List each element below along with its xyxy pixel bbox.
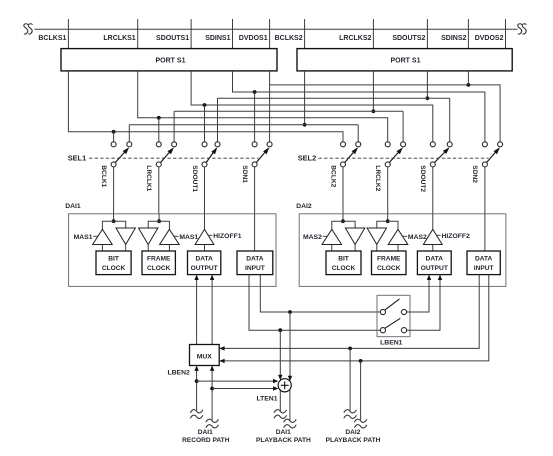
svg-text:OUTPUT: OUTPUT xyxy=(421,265,448,272)
svg-text:BIT: BIT xyxy=(338,256,349,263)
svg-text:HIZOFF2: HIZOFF2 xyxy=(442,233,471,240)
svg-text:PORT S1: PORT S1 xyxy=(156,57,186,64)
svg-text:SDINS2: SDINS2 xyxy=(441,35,466,42)
svg-text:PORT S1: PORT S1 xyxy=(391,57,421,64)
svg-text:BIT: BIT xyxy=(108,256,119,263)
svg-text:INPUT: INPUT xyxy=(474,265,494,272)
svg-text:BCLKS2: BCLKS2 xyxy=(275,35,303,42)
svg-text:PLAYBACK PATH: PLAYBACK PATH xyxy=(326,437,381,444)
svg-text:LRCLKS2: LRCLKS2 xyxy=(339,35,371,42)
svg-text:DAI1: DAI1 xyxy=(276,429,291,436)
svg-text:LBEN2: LBEN2 xyxy=(168,370,191,377)
svg-text:OUTPUT: OUTPUT xyxy=(191,265,218,272)
svg-text:SEL1: SEL1 xyxy=(68,154,86,163)
svg-text:CLOCK: CLOCK xyxy=(377,265,401,272)
svg-text:DATA: DATA xyxy=(246,256,264,263)
svg-text:SDOUTS2: SDOUTS2 xyxy=(392,35,425,42)
svg-text:MAS1: MAS1 xyxy=(179,234,198,241)
svg-text:DAI2: DAI2 xyxy=(345,429,360,436)
svg-text:LTEN1: LTEN1 xyxy=(256,395,277,402)
svg-text:DAI1: DAI1 xyxy=(65,203,81,210)
svg-text:SDINS1: SDINS1 xyxy=(205,35,230,42)
svg-text:CLOCK: CLOCK xyxy=(332,265,356,272)
svg-text:SDOUT1: SDOUT1 xyxy=(191,165,198,192)
svg-text:FRAME: FRAME xyxy=(377,256,401,263)
svg-text:CLOCK: CLOCK xyxy=(147,265,171,272)
svg-text:DAI2: DAI2 xyxy=(296,203,312,210)
svg-text:BCLKS1: BCLKS1 xyxy=(38,35,66,42)
svg-text:LRCLK2: LRCLK2 xyxy=(374,165,381,191)
svg-text:SDOUTS1: SDOUTS1 xyxy=(156,35,189,42)
svg-text:MUX: MUX xyxy=(197,353,213,360)
svg-text:DVDOS1: DVDOS1 xyxy=(239,35,268,42)
svg-text:MAS2: MAS2 xyxy=(303,234,322,241)
svg-text:MAS1: MAS1 xyxy=(74,234,93,241)
svg-text:DAI1: DAI1 xyxy=(198,429,213,436)
svg-text:PLAYBACK PATH: PLAYBACK PATH xyxy=(256,437,311,444)
svg-text:BCLK1: BCLK1 xyxy=(100,165,107,187)
svg-text:SDN2: SDN2 xyxy=(471,165,478,183)
svg-text:DVDOS2: DVDOS2 xyxy=(475,35,504,42)
svg-text:SDOUT2: SDOUT2 xyxy=(419,165,426,192)
svg-text:DATA: DATA xyxy=(426,256,444,263)
svg-text:SEL2: SEL2 xyxy=(298,154,316,163)
svg-text:LRCLKS1: LRCLKS1 xyxy=(103,35,135,42)
svg-text:DATA: DATA xyxy=(475,256,493,263)
svg-text:LBEN1: LBEN1 xyxy=(380,339,403,346)
svg-text:RECORD PATH: RECORD PATH xyxy=(182,437,230,444)
svg-text:DATA: DATA xyxy=(195,256,213,263)
svg-text:INPUT: INPUT xyxy=(245,265,265,272)
svg-text:LRCLK1: LRCLK1 xyxy=(145,165,152,191)
svg-text:HIZOFF1: HIZOFF1 xyxy=(213,233,242,240)
svg-text:BCLK2: BCLK2 xyxy=(329,165,336,187)
svg-text:FRAME: FRAME xyxy=(147,256,171,263)
svg-text:CLOCK: CLOCK xyxy=(102,265,126,272)
svg-text:SDN1: SDN1 xyxy=(241,165,248,183)
svg-text:MAS2: MAS2 xyxy=(408,234,427,241)
